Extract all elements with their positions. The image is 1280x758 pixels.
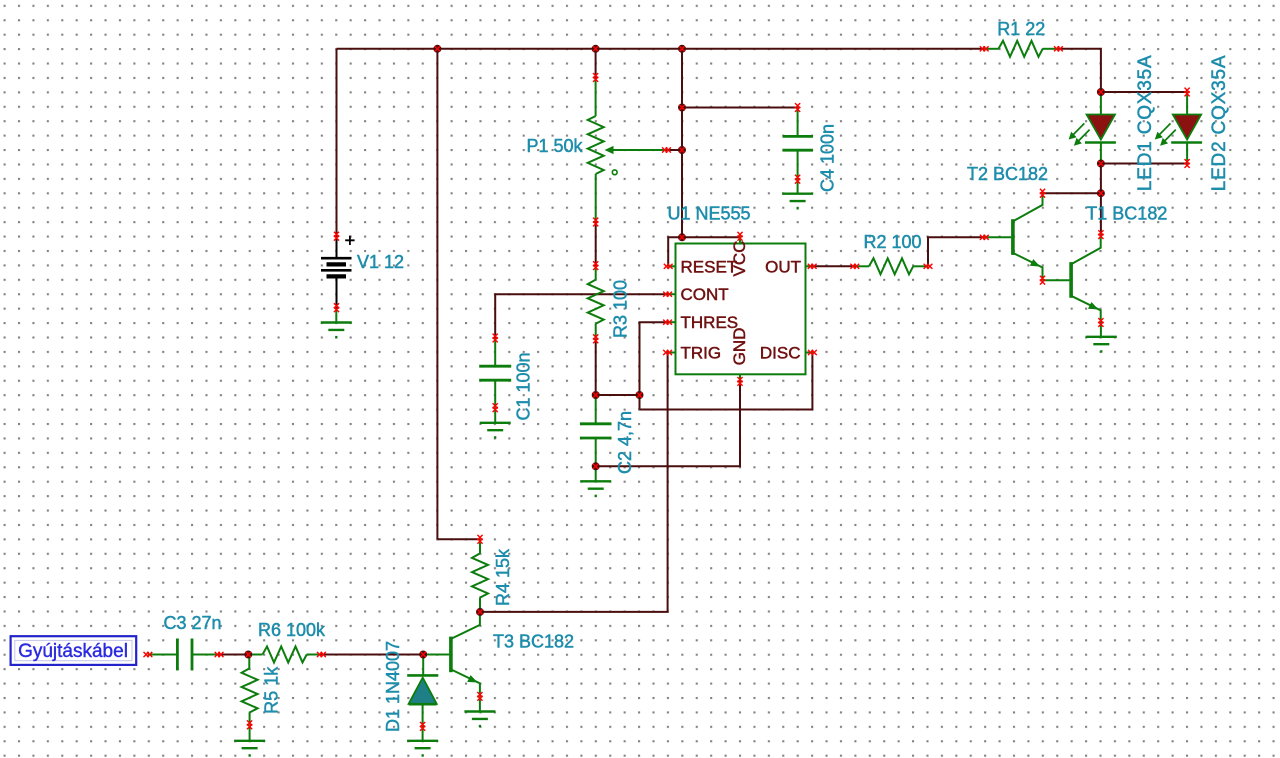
svg-text:C1 100n: C1 100n bbox=[514, 352, 534, 420]
wire R3 bottom to C2 top bbox=[595, 339, 597, 395]
transistor T1 bbox=[1043, 235, 1101, 323]
junction node C3 / R5 / R6 bbox=[244, 651, 252, 659]
junction node top bus / R4 drop bbox=[433, 45, 441, 53]
wire to VCC pin bbox=[682, 236, 740, 238]
wire top power bus bbox=[337, 48, 985, 50]
wire bus down to P1 bbox=[595, 49, 597, 78]
svg-text:GND: GND bbox=[730, 328, 749, 366]
ground below T1 bbox=[1086, 337, 1117, 352]
wire OUT to R2 bbox=[812, 265, 855, 267]
wire CONT to C1 bbox=[495, 294, 667, 338]
node label Gyujtaskabel box bbox=[11, 636, 137, 665]
ground below D1 bbox=[407, 741, 438, 756]
terminal markers T2 bbox=[980, 235, 989, 240]
terminal markers T3 emitter bbox=[477, 692, 482, 701]
svg-text:R6 100k: R6 100k bbox=[258, 620, 326, 640]
junction node R3/C2 bbox=[592, 391, 600, 399]
junction node R4 / T3 collector bbox=[476, 608, 484, 616]
wire node to T1 collector bbox=[1100, 193, 1102, 234]
junction node T3 base / D1 bbox=[419, 651, 427, 659]
svg-text:VCC: VCC bbox=[730, 241, 749, 277]
wire THRES elbow bbox=[640, 322, 668, 409]
terminal markers C4 bbox=[795, 103, 800, 112]
LED LED2 bbox=[1155, 92, 1202, 164]
terminal markers R4 bbox=[477, 535, 482, 544]
terminal markers T1 bbox=[1098, 230, 1103, 239]
terminal markers R5 bbox=[247, 720, 252, 729]
capacitor C1 bbox=[479, 338, 511, 408]
wire C3 to R5 node bbox=[219, 654, 248, 656]
svg-text:RESET: RESET bbox=[681, 257, 738, 276]
svg-text:OUT: OUT bbox=[765, 257, 801, 276]
svg-text:V1 12: V1 12 bbox=[357, 252, 404, 272]
pin stubs U1 bbox=[668, 236, 813, 381]
ground below V1 bbox=[321, 323, 352, 338]
junction node C2 bottom / GND bbox=[592, 462, 600, 470]
capacitor C3 bbox=[148, 639, 219, 671]
terminal markers C1 bbox=[493, 334, 498, 343]
wire V1 to top bus bbox=[336, 49, 338, 236]
wire bus down to R4 bbox=[436, 49, 438, 540]
svg-text:R3 100: R3 100 bbox=[611, 280, 631, 338]
svg-text:CONT: CONT bbox=[681, 285, 729, 304]
svg-text:C4 100n: C4 100n bbox=[818, 124, 838, 192]
terminal markers R3 bbox=[593, 261, 598, 270]
resistor R5 bbox=[242, 655, 258, 725]
terminal markers LED2 bbox=[1185, 88, 1190, 97]
svg-text:R5 1k: R5 1k bbox=[262, 666, 282, 714]
junction node LED anode bbox=[1097, 88, 1105, 96]
terminal markers R6 bbox=[317, 652, 326, 657]
svg-text:R2 100: R2 100 bbox=[863, 232, 921, 252]
wire GND pin to C2 bottom bbox=[596, 381, 740, 466]
svg-text:TRIG: TRIG bbox=[681, 343, 722, 362]
wire DISC bus bbox=[640, 353, 813, 410]
terminal markers R2 bbox=[850, 264, 859, 269]
svg-text:P1 50k: P1 50k bbox=[526, 136, 583, 156]
svg-text:DISC: DISC bbox=[760, 343, 801, 362]
ground below C1 bbox=[480, 423, 511, 438]
wire R2 to T2 base bbox=[928, 237, 984, 266]
capacitor C4 bbox=[783, 108, 813, 180]
wire TRIG down and left to R4 node bbox=[480, 353, 668, 612]
terminal markers V1 bbox=[334, 232, 339, 241]
resistor R1 bbox=[984, 41, 1058, 57]
resistor R4 bbox=[472, 539, 488, 612]
svg-text:T1 BC182: T1 BC182 bbox=[1086, 203, 1167, 223]
junction node top bus / P1 drop bbox=[592, 45, 600, 53]
wire LED anode bus bbox=[1101, 91, 1187, 93]
svg-text:T3 BC182: T3 BC182 bbox=[493, 631, 574, 651]
capacitor C2 bbox=[580, 395, 612, 466]
op-amp U1 NE555 box bbox=[676, 244, 806, 375]
svg-text:LED2 CQX35A: LED2 CQX35A bbox=[1209, 55, 1230, 192]
svg-text:Gyújtáskábel: Gyújtáskábel bbox=[18, 641, 128, 662]
wire node to R3 bottom bbox=[596, 394, 640, 396]
wire LED cathode down to T1 node bbox=[1100, 164, 1102, 194]
transistor T2 bbox=[984, 193, 1042, 280]
battery V1 bbox=[321, 236, 355, 308]
diode D1 bbox=[407, 655, 438, 727]
terminal markers R1 bbox=[980, 46, 989, 51]
wire bus down to U1 node bbox=[681, 49, 683, 238]
terminal markers D1 bbox=[420, 722, 425, 731]
junction node VCC/RESET bbox=[678, 233, 686, 241]
transistor T3 bbox=[423, 612, 480, 697]
terminal markers P1 bbox=[593, 73, 598, 82]
wire T3 base to R6 bbox=[321, 654, 423, 656]
resistor R6 bbox=[248, 647, 321, 663]
ground below T3 bbox=[464, 712, 495, 727]
resistor R2 bbox=[855, 258, 928, 274]
wire P1 wiper link bbox=[667, 149, 683, 151]
svg-text:D1 1N4007: D1 1N4007 bbox=[383, 641, 403, 732]
junction node C4 branch bbox=[678, 104, 686, 112]
junction node THRES/DISC bbox=[636, 391, 644, 399]
ground below C4 bbox=[782, 194, 813, 209]
svg-text:T2 BC182: T2 BC182 bbox=[967, 164, 1048, 184]
junction node T1/T2 collector bbox=[1097, 189, 1105, 197]
wire branch to C4 bbox=[682, 107, 798, 109]
svg-text:C2 4,7n: C2 4,7n bbox=[615, 411, 635, 474]
wire to RESET pin bbox=[668, 237, 682, 266]
svg-text:R4 15k: R4 15k bbox=[493, 548, 513, 606]
wire P1 bottom to R3 top bbox=[595, 222, 597, 266]
junction node P1 wiper bbox=[678, 146, 686, 154]
wire T2 collector to T1 collector node bbox=[1043, 192, 1101, 194]
resistor R3 bbox=[588, 266, 604, 339]
svg-text:U1 NE555: U1 NE555 bbox=[668, 204, 751, 224]
LED LED1 bbox=[1069, 92, 1116, 164]
svg-text:LED1 CQX35A: LED1 CQX35A bbox=[1135, 55, 1156, 192]
wire to R4 top bbox=[437, 538, 480, 540]
ground below R5 bbox=[234, 741, 265, 756]
ground below C2 bbox=[580, 481, 611, 496]
junction node top bus / U1 drop bbox=[678, 45, 686, 53]
svg-text:R1 22: R1 22 bbox=[997, 19, 1045, 39]
potentiometer P1 bbox=[588, 78, 667, 223]
wire R1 to LED corner bbox=[1058, 49, 1101, 92]
terminal markers C3 bbox=[144, 652, 153, 657]
junction node LED cathode bbox=[1097, 160, 1105, 168]
terminal markers U1 pins bbox=[664, 264, 673, 269]
wire LED cathode bus bbox=[1101, 163, 1187, 165]
svg-text:C3 27n: C3 27n bbox=[163, 613, 221, 633]
